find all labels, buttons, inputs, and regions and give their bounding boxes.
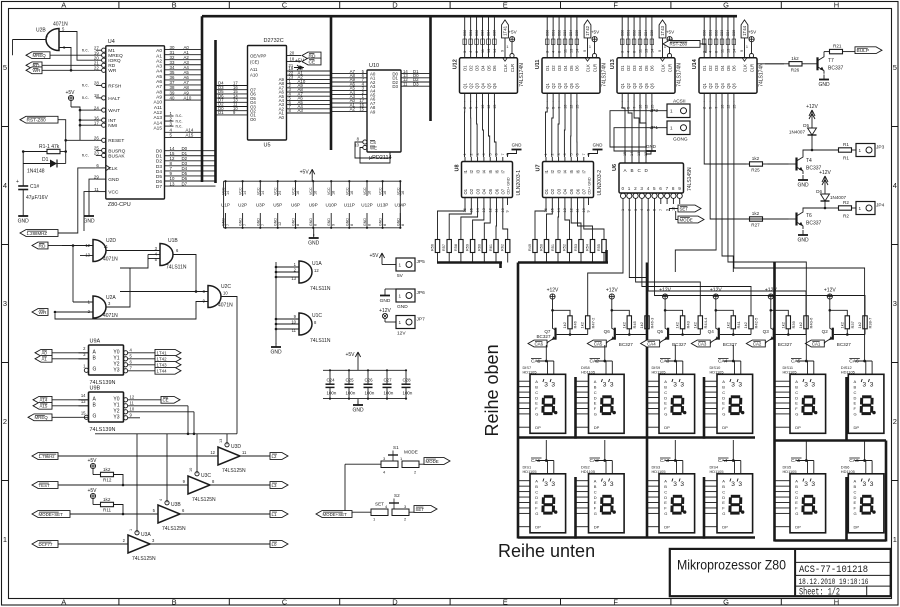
svg-text:L3: L3 (272, 483, 277, 488)
svg-text:C: C (854, 489, 857, 494)
svg-text:A14: A14 (40, 398, 48, 403)
svg-text:F: F (613, 597, 618, 606)
svg-text:16: 16 (401, 191, 405, 195)
svg-text:CE: CE (163, 398, 169, 403)
svg-text:HD1105: HD1105 (523, 370, 537, 375)
svg-text:E: E (795, 500, 798, 505)
net flag MREQ (26, 52, 50, 59)
ground under T6 (797, 230, 809, 244)
7-segment display DIS7 (row 1 CA1) (518, 358, 566, 433)
svg-text:Mikroprozessor Z80: Mikroprozessor Z80 (677, 557, 786, 573)
svg-text:U3P: U3P (256, 203, 265, 208)
IC U12 74LS174N (453, 15, 526, 109)
svg-text:R25: R25 (751, 168, 760, 173)
svg-text:6: 6 (715, 51, 719, 53)
gate U2A 4071N (55, 295, 118, 319)
svg-text:D: D (594, 495, 597, 500)
resistor R26 1k2 (765, 56, 807, 73)
svg-text:G: G (664, 412, 667, 417)
7-segment display DIS3 (row 2 CA3) (647, 458, 695, 533)
svg-text:GONG: GONG (673, 137, 688, 143)
svg-text:CD+ GND: CD+ GND (507, 177, 511, 194)
svg-text:Q6: Q6 (650, 83, 655, 89)
svg-text:O3: O3 (556, 188, 561, 194)
svg-text:E: E (854, 401, 857, 406)
svg-text:VCC: VCC (379, 187, 383, 195)
svg-text:11: 11 (104, 244, 109, 249)
svg-text:9: 9 (506, 210, 510, 212)
svg-text:+5V: +5V (300, 169, 310, 175)
svg-text:14: 14 (243, 191, 247, 195)
IC U7 ULN2003-2 (536, 143, 604, 213)
svg-text:n.c.: n.c. (82, 153, 89, 158)
wire CA net display row2 module 1 (545, 440, 547, 461)
svg-text:A7: A7 (156, 84, 162, 90)
wire DCF77 row (58, 543, 270, 545)
svg-text:A: A (664, 478, 667, 483)
svg-text:C: C (664, 489, 667, 494)
svg-text:C26: C26 (365, 378, 374, 383)
svg-text:6: 6 (558, 51, 562, 53)
wire U9B Y1 long (128, 405, 188, 407)
wire TEST row (58, 484, 270, 486)
wire CA net display row2 module 4 (732, 440, 734, 461)
transistor Q6 BC327 display driver (587, 287, 654, 347)
svg-text:40: 40 (170, 95, 175, 100)
power +5V at CPU wait (65, 90, 80, 141)
svg-text:R46-3: R46-3 (650, 317, 655, 329)
svg-text:U9A: U9A (90, 339, 101, 345)
svg-text:Q6: Q6 (492, 83, 497, 89)
svg-text:D5: D5 (569, 65, 574, 71)
svg-text:Q2: Q2 (551, 83, 556, 89)
svg-text:3: 3 (893, 299, 897, 308)
svg-text:74LS139N: 74LS139N (90, 427, 116, 433)
wire U9A Y2 flag (128, 364, 155, 366)
svg-text:F: F (613, 0, 618, 9)
svg-text:C: C (854, 390, 857, 395)
svg-text:U1C: U1C (312, 313, 322, 319)
svg-text:ULN2003-2: ULN2003-2 (597, 170, 603, 196)
transistor T7 BC337 (807, 54, 844, 74)
svg-text:3: 3 (544, 382, 548, 389)
wire U13 Q5 to JP2 ACSII (610, 101, 667, 147)
svg-text:B: B (664, 384, 667, 389)
net flag CE at EPROM (302, 58, 321, 65)
ground under T4 (797, 175, 809, 189)
ground under C1 (18, 212, 30, 225)
resistor group R49-R55 (528, 205, 606, 263)
7-segment display DIS11 (row 1 CA5) (775, 358, 826, 433)
svg-text:VCC: VCC (256, 187, 260, 195)
transistor Q4 BC327 display driver (691, 287, 758, 347)
svg-text:12: 12 (487, 105, 491, 109)
svg-text:R41: R41 (736, 320, 741, 328)
svg-text:6: 6 (475, 51, 479, 53)
svg-text:DB2: DB2 (714, 30, 718, 36)
net flag WR (26, 67, 42, 74)
svg-text:L1: L1 (272, 512, 277, 517)
svg-text:100n: 100n (365, 391, 375, 396)
svg-text:D2: D2 (626, 65, 631, 71)
svg-text:DB3: DB3 (720, 30, 724, 36)
svg-text:n.c.: n.c. (82, 95, 89, 100)
svg-text:8: 8 (350, 224, 354, 226)
svg-text:D2: D2 (468, 65, 473, 71)
svg-text:1T42: 1T42 (157, 357, 168, 362)
svg-text:B: B (795, 484, 798, 489)
svg-text:VCC: VCC (327, 187, 331, 195)
svg-text:DB5: DB5 (575, 30, 579, 36)
svg-text:Q4: Q4 (708, 329, 715, 334)
svg-text:1.288MHZ: 1.288MHZ (27, 231, 48, 236)
resistor R1-1 47k (22, 144, 67, 154)
power +5V at EPROM (294, 59, 305, 70)
svg-text:1T42: 1T42 (585, 25, 590, 36)
svg-text:BC327: BC327 (778, 342, 792, 347)
svg-text:A: A (795, 379, 798, 384)
svg-text:D: D (722, 495, 725, 500)
resistor R21 (824, 44, 855, 54)
IC U11 74LS174N (535, 15, 608, 109)
svg-text:2: 2 (893, 417, 897, 426)
svg-text:GND: GND (83, 219, 95, 225)
svg-text:R55: R55 (597, 244, 601, 251)
svg-text:DP: DP (664, 425, 670, 430)
svg-text:+5V: +5V (369, 253, 379, 259)
svg-text:RST-Z80: RST-Z80 (27, 118, 47, 124)
ground at JP6 (380, 289, 396, 304)
svg-text:R1: R1 (843, 156, 849, 161)
svg-text:Z80-CPU: Z80-CPU (108, 202, 131, 208)
svg-text:A: A (722, 478, 725, 483)
svg-text:9: 9 (332, 224, 336, 226)
svg-text:16: 16 (296, 191, 300, 195)
svg-text:Q1: Q1 (702, 83, 707, 89)
gate U2D 4071N (62, 238, 118, 263)
svg-text:4071N: 4071N (218, 303, 233, 309)
svg-text:15: 15 (575, 105, 579, 109)
svg-text:A15: A15 (186, 133, 194, 138)
svg-text:7: 7 (243, 224, 247, 226)
svg-text:4: 4 (482, 153, 486, 155)
svg-text:BC327: BC327 (672, 342, 686, 347)
svg-text:3: 3 (870, 481, 874, 488)
svg-text:8: 8 (296, 224, 300, 226)
svg-text:100n: 100n (327, 391, 337, 396)
svg-text:D4: D4 (720, 65, 725, 71)
svg-text:1T41: 1T41 (157, 351, 168, 356)
svg-text:CA6: CA6 (535, 341, 544, 346)
svg-text:74LS11N: 74LS11N (310, 286, 331, 292)
svg-text:E: E (854, 500, 857, 505)
svg-text:O3: O3 (475, 188, 480, 194)
svg-text:7: 7 (226, 224, 230, 226)
svg-text:MODE+SET: MODE+SET (39, 512, 64, 517)
svg-text:GND: GND (327, 218, 331, 226)
svg-text:14: 14 (81, 393, 86, 398)
svg-text:D7: D7 (182, 181, 188, 186)
svg-text:D3: D3 (474, 65, 479, 71)
svg-text:VCC: VCC (309, 187, 313, 195)
svg-text:10: 10 (130, 406, 135, 411)
svg-text:VCC: VCC (292, 187, 296, 195)
svg-text:R11: R11 (103, 508, 112, 513)
svg-text:+5V: +5V (295, 59, 305, 65)
svg-text:HD1105: HD1105 (783, 469, 797, 474)
svg-text:8: 8 (587, 153, 591, 155)
svg-text:100n: 100n (384, 391, 394, 396)
svg-text:1k2: 1k2 (103, 497, 111, 502)
net flag SET mid (669, 205, 701, 212)
svg-text:BC327: BC327 (619, 342, 633, 347)
svg-text:3: 3 (680, 481, 684, 488)
svg-text:n.c.: n.c. (82, 47, 89, 52)
svg-text:O0: O0 (250, 117, 256, 122)
svg-text:3: 3 (804, 481, 808, 488)
svg-text:9: 9 (583, 50, 587, 52)
svg-text:WR: WR (108, 68, 117, 74)
svg-text:A1: A1 (42, 357, 48, 362)
svg-text:HD1105: HD1105 (783, 370, 797, 375)
svg-text:28: 28 (94, 81, 99, 86)
7-segment display DIS1 (row 2 CA1) (518, 458, 566, 533)
svg-text:DP: DP (722, 524, 728, 529)
svg-text:R59: R59 (466, 244, 470, 251)
svg-text:O7: O7 (582, 188, 587, 194)
wires U12 outputs to U8 (465, 101, 497, 157)
svg-text:10: 10 (354, 143, 359, 148)
svg-text:OE/VPP: OE/VPP (250, 54, 266, 59)
wire CA net to display row1 module 1 (545, 345, 547, 360)
svg-text:D: D (392, 597, 398, 606)
svg-text:4071N: 4071N (103, 313, 118, 319)
svg-text:A8: A8 (156, 89, 162, 95)
svg-text:1: 1 (746, 45, 748, 49)
wire U9A Y3 flag (128, 370, 155, 372)
svg-text:1k2: 1k2 (752, 156, 760, 161)
connector JP1 (650, 121, 690, 143)
svg-text:U3D: U3D (231, 444, 241, 450)
svg-text:24: 24 (278, 191, 282, 195)
net flag DCF77 (32, 541, 58, 548)
svg-text:DP: DP (854, 425, 860, 430)
svg-text:+5V: +5V (87, 488, 97, 494)
svg-text:11: 11 (242, 450, 247, 455)
svg-text:C: C (535, 489, 538, 494)
svg-text:A2: A2 (156, 58, 162, 64)
wire to C1 (22, 152, 24, 184)
svg-text:R12: R12 (103, 478, 112, 483)
svg-text:1k2: 1k2 (692, 321, 697, 328)
svg-text:17: 17 (94, 120, 99, 125)
gate U2B 4071N (13, 22, 96, 72)
net flag MREQ at U9B (28, 414, 89, 421)
svg-text:8: 8 (506, 153, 510, 155)
svg-text:GND: GND (256, 218, 260, 226)
IC U8 ULN2003-1 (455, 143, 523, 213)
wire U9B Y3 stub (128, 417, 140, 419)
svg-text:A: A (594, 478, 597, 483)
power +12V at JP7 (379, 308, 396, 322)
svg-text:WAIT: WAIT (108, 108, 120, 114)
7-segment display DIS12 (row 1 CA6) (841, 358, 884, 433)
svg-text:U12P: U12P (361, 203, 373, 208)
svg-text:GND: GND (308, 241, 320, 247)
svg-text:DP: DP (664, 524, 670, 529)
svg-text:5: 5 (488, 153, 492, 155)
svg-text:A4: A4 (156, 69, 162, 75)
title block field ACS-77-101218 (799, 564, 868, 576)
svg-text:VCC: VCC (274, 187, 278, 195)
svg-text:VCC: VCC (239, 187, 243, 195)
svg-text:3: 3 (738, 382, 742, 389)
svg-text:GND: GND (818, 82, 830, 88)
svg-text:U9P: U9P (309, 203, 318, 208)
svg-text:D: D (722, 395, 725, 400)
svg-text:U14: U14 (692, 58, 698, 69)
svg-text:B: B (172, 597, 177, 606)
svg-text:4: 4 (709, 51, 713, 53)
svg-text:A11: A11 (154, 105, 163, 111)
svg-text:D1: D1 (545, 65, 550, 71)
svg-text:E: E (535, 500, 538, 505)
svg-text:B: B (594, 384, 597, 389)
svg-text:Q3: Q3 (763, 329, 770, 334)
svg-text:1T43: 1T43 (157, 363, 168, 368)
svg-text:A10: A10 (184, 95, 192, 100)
svg-text:14: 14 (732, 49, 736, 53)
svg-text:D1: D1 (218, 110, 224, 115)
svg-text:GND: GND (396, 218, 400, 226)
junction T6 collector (824, 207, 827, 210)
svg-text:Q3: Q3 (632, 83, 637, 89)
svg-text:GND: GND (222, 218, 226, 226)
svg-text:9: 9 (587, 210, 591, 212)
diode D1 1N4148 (23, 157, 65, 175)
gate U2C 4071N (54, 284, 233, 319)
svg-text:11: 11 (94, 187, 99, 192)
svg-text:12: 12 (726, 105, 730, 109)
svg-text:1: 1 (463, 153, 467, 155)
svg-text:1k2: 1k2 (621, 321, 626, 328)
svg-text:13: 13 (569, 49, 573, 53)
svg-text:4: 4 (647, 186, 650, 191)
svg-text:3: 3 (863, 481, 867, 488)
wires U11 outputs to U7 (546, 101, 578, 157)
svg-text:E: E (594, 500, 597, 505)
svg-text:5: 5 (893, 63, 897, 72)
svg-text:12: 12 (644, 105, 648, 109)
wire CA net to display row1 module 6 (864, 272, 866, 360)
svg-text:JP4: JP4 (876, 203, 885, 209)
svg-text:DB5: DB5 (493, 30, 497, 36)
buffer U3B 74LS125N (153, 499, 186, 532)
svg-text:1N4007: 1N4007 (789, 130, 806, 135)
svg-text:15: 15 (359, 107, 364, 112)
svg-text:HD1105: HD1105 (581, 469, 595, 474)
svg-text:1: 1 (3, 535, 7, 544)
gate U1B 74LS11N (106, 238, 187, 271)
svg-text:D6: D6 (732, 65, 737, 71)
wires U13 outputs to U6 ABCD (622, 101, 646, 157)
svg-text:1k2: 1k2 (725, 321, 730, 328)
wires U14 outputs down right (675, 101, 864, 272)
svg-text:100n: 100n (346, 391, 356, 396)
svg-text:n.c.: n.c. (176, 123, 183, 128)
wire T6 collector (803, 208, 825, 209)
svg-text:D1: D1 (620, 65, 625, 71)
svg-text:74LS125N: 74LS125N (222, 468, 246, 474)
svg-text:1: 1 (670, 109, 673, 114)
svg-text:B: B (594, 484, 597, 489)
svg-text:14: 14 (630, 152, 634, 156)
svg-text:A: A (535, 478, 538, 483)
IC U14 74LS174N (692, 15, 765, 109)
svg-text:A0: A0 (42, 351, 48, 356)
svg-text:CLR: CLR (750, 64, 755, 72)
svg-text:10: 10 (721, 105, 725, 109)
svg-text:D3: D3 (632, 65, 637, 71)
wire CA net display row2 module 2 (604, 440, 606, 461)
svg-text:16: 16 (368, 191, 372, 195)
wire A14 to U9B (52, 399, 89, 401)
svg-text:Q4: Q4 (563, 83, 568, 89)
svg-text:2: 2 (546, 107, 550, 109)
IC U10 uPD2114 RAM (331, 63, 431, 163)
svg-text:G: G (535, 511, 538, 516)
svg-text:GND: GND (593, 143, 603, 148)
svg-text:3: 3 (811, 481, 815, 488)
svg-text:74LS174N: 74LS174N (759, 63, 765, 87)
svg-text:S2: S2 (394, 493, 400, 498)
svg-text:CE: CE (309, 59, 316, 65)
address/data bus top horizontal (202, 15, 737, 18)
svg-text:BC337: BC337 (828, 66, 844, 72)
net flag L1 (270, 511, 288, 518)
buffer U3D 74LS125N (210, 439, 247, 474)
bus vertical D-bus (214, 40, 217, 183)
svg-text:16: 16 (350, 191, 354, 195)
svg-text:9: 9 (678, 186, 681, 191)
svg-text:A: A (722, 379, 725, 384)
svg-text:A1: A1 (156, 53, 162, 59)
svg-text:DB4: DB4 (726, 30, 730, 36)
svg-text:1: 1 (589, 45, 591, 49)
wire CPU GND (89, 179, 96, 212)
ground under CPU (83, 212, 95, 225)
svg-text:74LS125N: 74LS125N (132, 556, 156, 562)
net flag 1.79kHz (32, 453, 58, 460)
net flag 1.288MHZ (20, 230, 58, 237)
svg-text:E: E (664, 401, 667, 406)
svg-text:CLK: CLK (743, 64, 748, 72)
wire U1B out right (173, 255, 197, 293)
svg-text:D5: D5 (644, 65, 649, 71)
transistor Q3 BC327 display driver (746, 287, 813, 347)
ground under power array (308, 228, 320, 247)
svg-text:15: 15 (81, 411, 86, 416)
bus vertical between displays 5-6 row2 (845, 477, 848, 542)
svg-text:U11P: U11P (344, 203, 355, 208)
svg-text:+5V: +5V (666, 30, 675, 35)
svg-text:R47-2: R47-2 (590, 317, 595, 329)
svg-text:+5V: +5V (508, 30, 517, 35)
net flag L2 (270, 453, 288, 460)
svg-text:D: D (594, 395, 597, 400)
svg-text:D4: D4 (480, 65, 485, 71)
svg-text:DB0: DB0 (545, 30, 549, 36)
